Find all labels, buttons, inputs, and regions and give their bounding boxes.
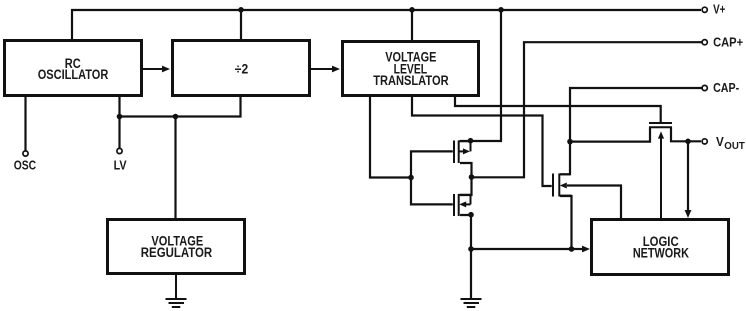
wire CAP+ to M1 source node (473, 42, 702, 177)
node CAP- / VOUT path junction (567, 139, 573, 145)
wire gate column M1/M2 (411, 151, 453, 204)
node gate column junction (408, 175, 414, 181)
terminal LV (117, 148, 122, 153)
svg-text:LV: LV (114, 158, 127, 173)
wire translator bottom to M4 gate (455, 96, 661, 123)
box divide-by-2 (173, 41, 310, 96)
svg-text:÷2: ÷2 (235, 62, 248, 77)
svg-text:OUT: OUT (724, 141, 745, 152)
node VOUT junction (685, 139, 691, 145)
svg-text:REGULATOR: REGULATOR (141, 245, 213, 260)
box logic network (592, 220, 729, 275)
node junction on rail at M1 branch (498, 7, 504, 13)
wire rail drop to voltage level translator top (411, 9, 413, 41)
svg-text:OSCILLATOR: OSCILLATOR (38, 67, 109, 82)
svg-text:V+: V+ (713, 2, 726, 17)
node junction on rail above divide-by-2 (238, 7, 244, 13)
transistor M3 (NMOS switch) (553, 174, 572, 197)
svg-text:V: V (716, 134, 724, 149)
node M2 source junction (468, 212, 474, 218)
wire OSC lead (24, 97, 26, 151)
svg-text:OSC: OSC (14, 158, 37, 173)
node junction on rail above translator (409, 7, 415, 13)
terminal CAP+ (702, 40, 707, 45)
wire translator bottom to M3 gate (412, 96, 552, 186)
wire V+ branch to M1 drain (460, 9, 501, 141)
ground at M2 source (461, 299, 482, 307)
wire M2 source to ground (460, 215, 471, 299)
box voltage regulator (108, 220, 245, 274)
box voltage level translator U3 (343, 42, 479, 96)
wire M1 source / M2 drain column (460, 163, 472, 195)
terminal V+ (702, 7, 707, 12)
arrow RC oscillator to divide-by-2 (143, 66, 691, 253)
arrow VOUT branch down into logic network (685, 210, 692, 218)
node LV junction (117, 114, 123, 120)
transistor M2 (NMOS switch) (454, 194, 471, 216)
svg-text:TRANSLATOR: TRANSLATOR (373, 73, 449, 88)
wire M3 source drop (560, 196, 572, 249)
transistor M4 (NMOS output switch) (649, 123, 672, 218)
terminal VOUT (702, 139, 707, 144)
arrow into logic network left (582, 246, 590, 253)
terminal CAP- (702, 85, 707, 90)
svg-text:NETWORK: NETWORK (633, 245, 689, 260)
node voltage regulator tap junction (173, 114, 179, 120)
wire LV node to divide-by-2 bottom (120, 97, 241, 117)
wire to logic network input (471, 248, 572, 250)
ground under voltage regulator (166, 275, 187, 307)
wire M4 right stub to VOUT (671, 127, 701, 141)
wire M3 top stub to CAP- (560, 88, 702, 174)
transistor M1 (PMOS switch) (454, 141, 471, 164)
wire to voltage regulator top (174, 117, 176, 219)
wire rail drop to RC oscillator top (71, 9, 73, 41)
wire LV lead (118, 97, 120, 148)
arrow divide-by-2 to translator (311, 68, 333, 70)
wire rail drop to divide-by-2 top (240, 9, 242, 40)
svg-text:CAP-: CAP- (713, 80, 739, 95)
terminal OSC (23, 151, 28, 156)
wire translator bottom to gate column (370, 96, 411, 178)
node logic branch junction (468, 246, 474, 252)
wire VOUT branch into logic network (687, 141, 689, 212)
node M3 source junction (569, 246, 575, 252)
wire arrow into logic network (572, 248, 584, 250)
wire M3 body line to logic network (567, 186, 621, 219)
box RC oscillator (5, 41, 142, 96)
wire V+ top rail (71, 9, 701, 11)
node M1-M2 junction (469, 174, 475, 180)
svg-text:CAP+: CAP+ (713, 35, 743, 50)
node M1 drain junction (468, 138, 474, 144)
wire to M4 left stub (570, 127, 650, 141)
